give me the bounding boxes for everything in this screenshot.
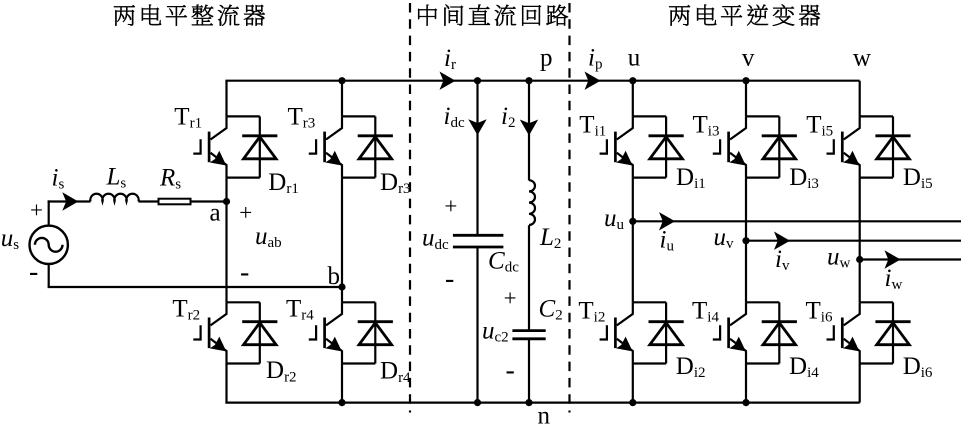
current arrow i2 — [520, 120, 538, 136]
transistor Ti4 (IGBT) — [713, 302, 746, 363]
dashed boundary line (left of DC link) — [409, 3, 411, 413]
wire: inverter leg u column segments — [632, 81, 634, 403]
wire: between Ls and Rs — [139, 200, 159, 202]
junction node v output — [742, 237, 749, 244]
wire: inverter leg v column segments — [745, 81, 747, 403]
IGBT cell Tr1/Dr1: connector wires — [227, 116, 260, 177]
svg-text:-: - — [29, 257, 38, 288]
IGBT cell Ti5/Di5: connector wires — [860, 116, 893, 177]
junction top rail / leg b — [338, 77, 345, 84]
dashed boundary line (right of DC link) — [568, 3, 570, 413]
wire: phase w output — [860, 258, 961, 260]
svg-text:u: u — [628, 45, 641, 72]
diode Di6 — [875, 302, 910, 363]
diode Di3 — [762, 116, 797, 177]
junction bottom rail / leg u — [629, 399, 636, 406]
diode Dr3 — [358, 116, 393, 177]
capacitor Cdc — [453, 235, 504, 247]
wire: top DC rail p — [225, 80, 859, 82]
current arrow iv — [774, 232, 790, 250]
transistor Ti2 (IGBT) — [600, 302, 633, 363]
current arrow iu — [659, 212, 675, 230]
svg-text:-: - — [240, 257, 249, 288]
diode Dr1 — [242, 116, 277, 177]
IGBT cell Ti2/Di2: connector wires — [633, 302, 666, 363]
wire: source negative lead down — [48, 263, 50, 287]
transistor Ti3 (IGBT) — [713, 116, 746, 177]
diode Di1 — [649, 116, 684, 177]
diode Di4 — [762, 302, 797, 363]
wire: leg b column segments — [341, 81, 343, 403]
svg-text:+: + — [504, 285, 517, 310]
IGBT cell Ti1/Di1: connector wires — [633, 116, 666, 177]
header label: 两电平整流器 (two-level rectifier) — [114, 5, 265, 26]
transistor Tr1 (IGBT) — [193, 116, 226, 177]
wire: between L2 and C2 — [528, 225, 530, 330]
IGBT cell Ti4/Di4: connector wires — [746, 302, 779, 363]
svg-text:n: n — [538, 403, 551, 425]
junction bottom rail / leg v — [742, 399, 749, 406]
wire: C2 to bottom rail — [528, 339, 530, 403]
transistor Tr3 (IGBT) — [309, 116, 342, 177]
IGBT cell Ti6/Di6: connector wires — [860, 302, 893, 363]
IGBT cell Tr3/Dr3: connector wires — [342, 116, 375, 177]
wire: source positive lead up to node a wire — [48, 200, 50, 226]
inductor Ls — [90, 194, 138, 202]
wire: L2/C2 branch upper column — [528, 81, 530, 181]
current arrow ir (top rail) — [440, 72, 456, 90]
transistor Tr2 (IGBT) — [193, 302, 226, 363]
diode Dr4 — [358, 302, 393, 363]
wire: phase v output — [746, 240, 961, 242]
wire: bottom DC rail n — [225, 402, 859, 404]
svg-text:-: - — [445, 263, 454, 294]
IGBT cell Tr2/Dr2: connector wires — [227, 302, 260, 363]
svg-text:w: w — [853, 45, 871, 72]
junction top rail / L2 branch — [525, 77, 532, 84]
transistor Ti6 (IGBT) — [827, 302, 860, 363]
junction bottom rail / Cdc branch — [474, 399, 481, 406]
svg-text:a: a — [210, 199, 221, 226]
svg-text:+: + — [239, 200, 252, 225]
junction node a — [223, 198, 230, 205]
wire: phase u output — [633, 220, 961, 222]
IGBT cell Tr4/Dr4: connector wires — [342, 302, 375, 363]
current arrow ip (top rail) — [585, 72, 601, 90]
current arrow idc — [468, 119, 486, 135]
inductor L2 — [529, 180, 535, 225]
svg-text:v: v — [742, 45, 755, 72]
diode Di5 — [875, 116, 910, 177]
current arrow iw — [885, 250, 901, 268]
svg-text:-: - — [506, 355, 515, 386]
junction top rail / leg u — [629, 77, 636, 84]
header label: 中间直流回路 (intermediate DC circuit) — [418, 4, 568, 25]
junction top rail / Cdc branch — [474, 77, 481, 84]
transistor Tr4 (IGBT) — [309, 302, 342, 363]
wire: lower source wire to node b — [48, 286, 342, 288]
junction node u output — [629, 218, 636, 225]
svg-text:+: + — [444, 194, 457, 219]
junction top rail / leg v — [742, 77, 749, 84]
IGBT cell Ti3/Di3: connector wires — [746, 116, 779, 177]
wire: inverter leg w column segments — [859, 81, 861, 403]
wire: leg a column segments — [225, 81, 227, 403]
svg-text:b: b — [328, 263, 341, 290]
junction node w output — [856, 256, 863, 263]
wire: upper source wire to node a (left part) — [48, 200, 91, 202]
diode Dr2 — [242, 302, 277, 363]
svg-text:p: p — [540, 45, 553, 72]
svg-text:+: + — [30, 198, 43, 223]
resistor Rs — [159, 199, 191, 205]
diode Di2 — [649, 302, 684, 363]
AC source us — [30, 226, 68, 264]
header label: 两电平逆变器 (two-level inverter) — [669, 4, 820, 25]
capacitor C2 — [512, 331, 545, 339]
junction bottom rail / C2 branch — [525, 399, 532, 406]
wire: Rs to node a — [191, 200, 227, 202]
transistor Ti1 (IGBT) — [600, 116, 633, 177]
current arrow is — [62, 192, 78, 210]
junction node b — [338, 283, 345, 290]
wire: Cdc branch column — [476, 81, 478, 403]
junction bottom rail / leg b — [338, 399, 345, 406]
transistor Ti5 (IGBT) — [827, 116, 860, 177]
